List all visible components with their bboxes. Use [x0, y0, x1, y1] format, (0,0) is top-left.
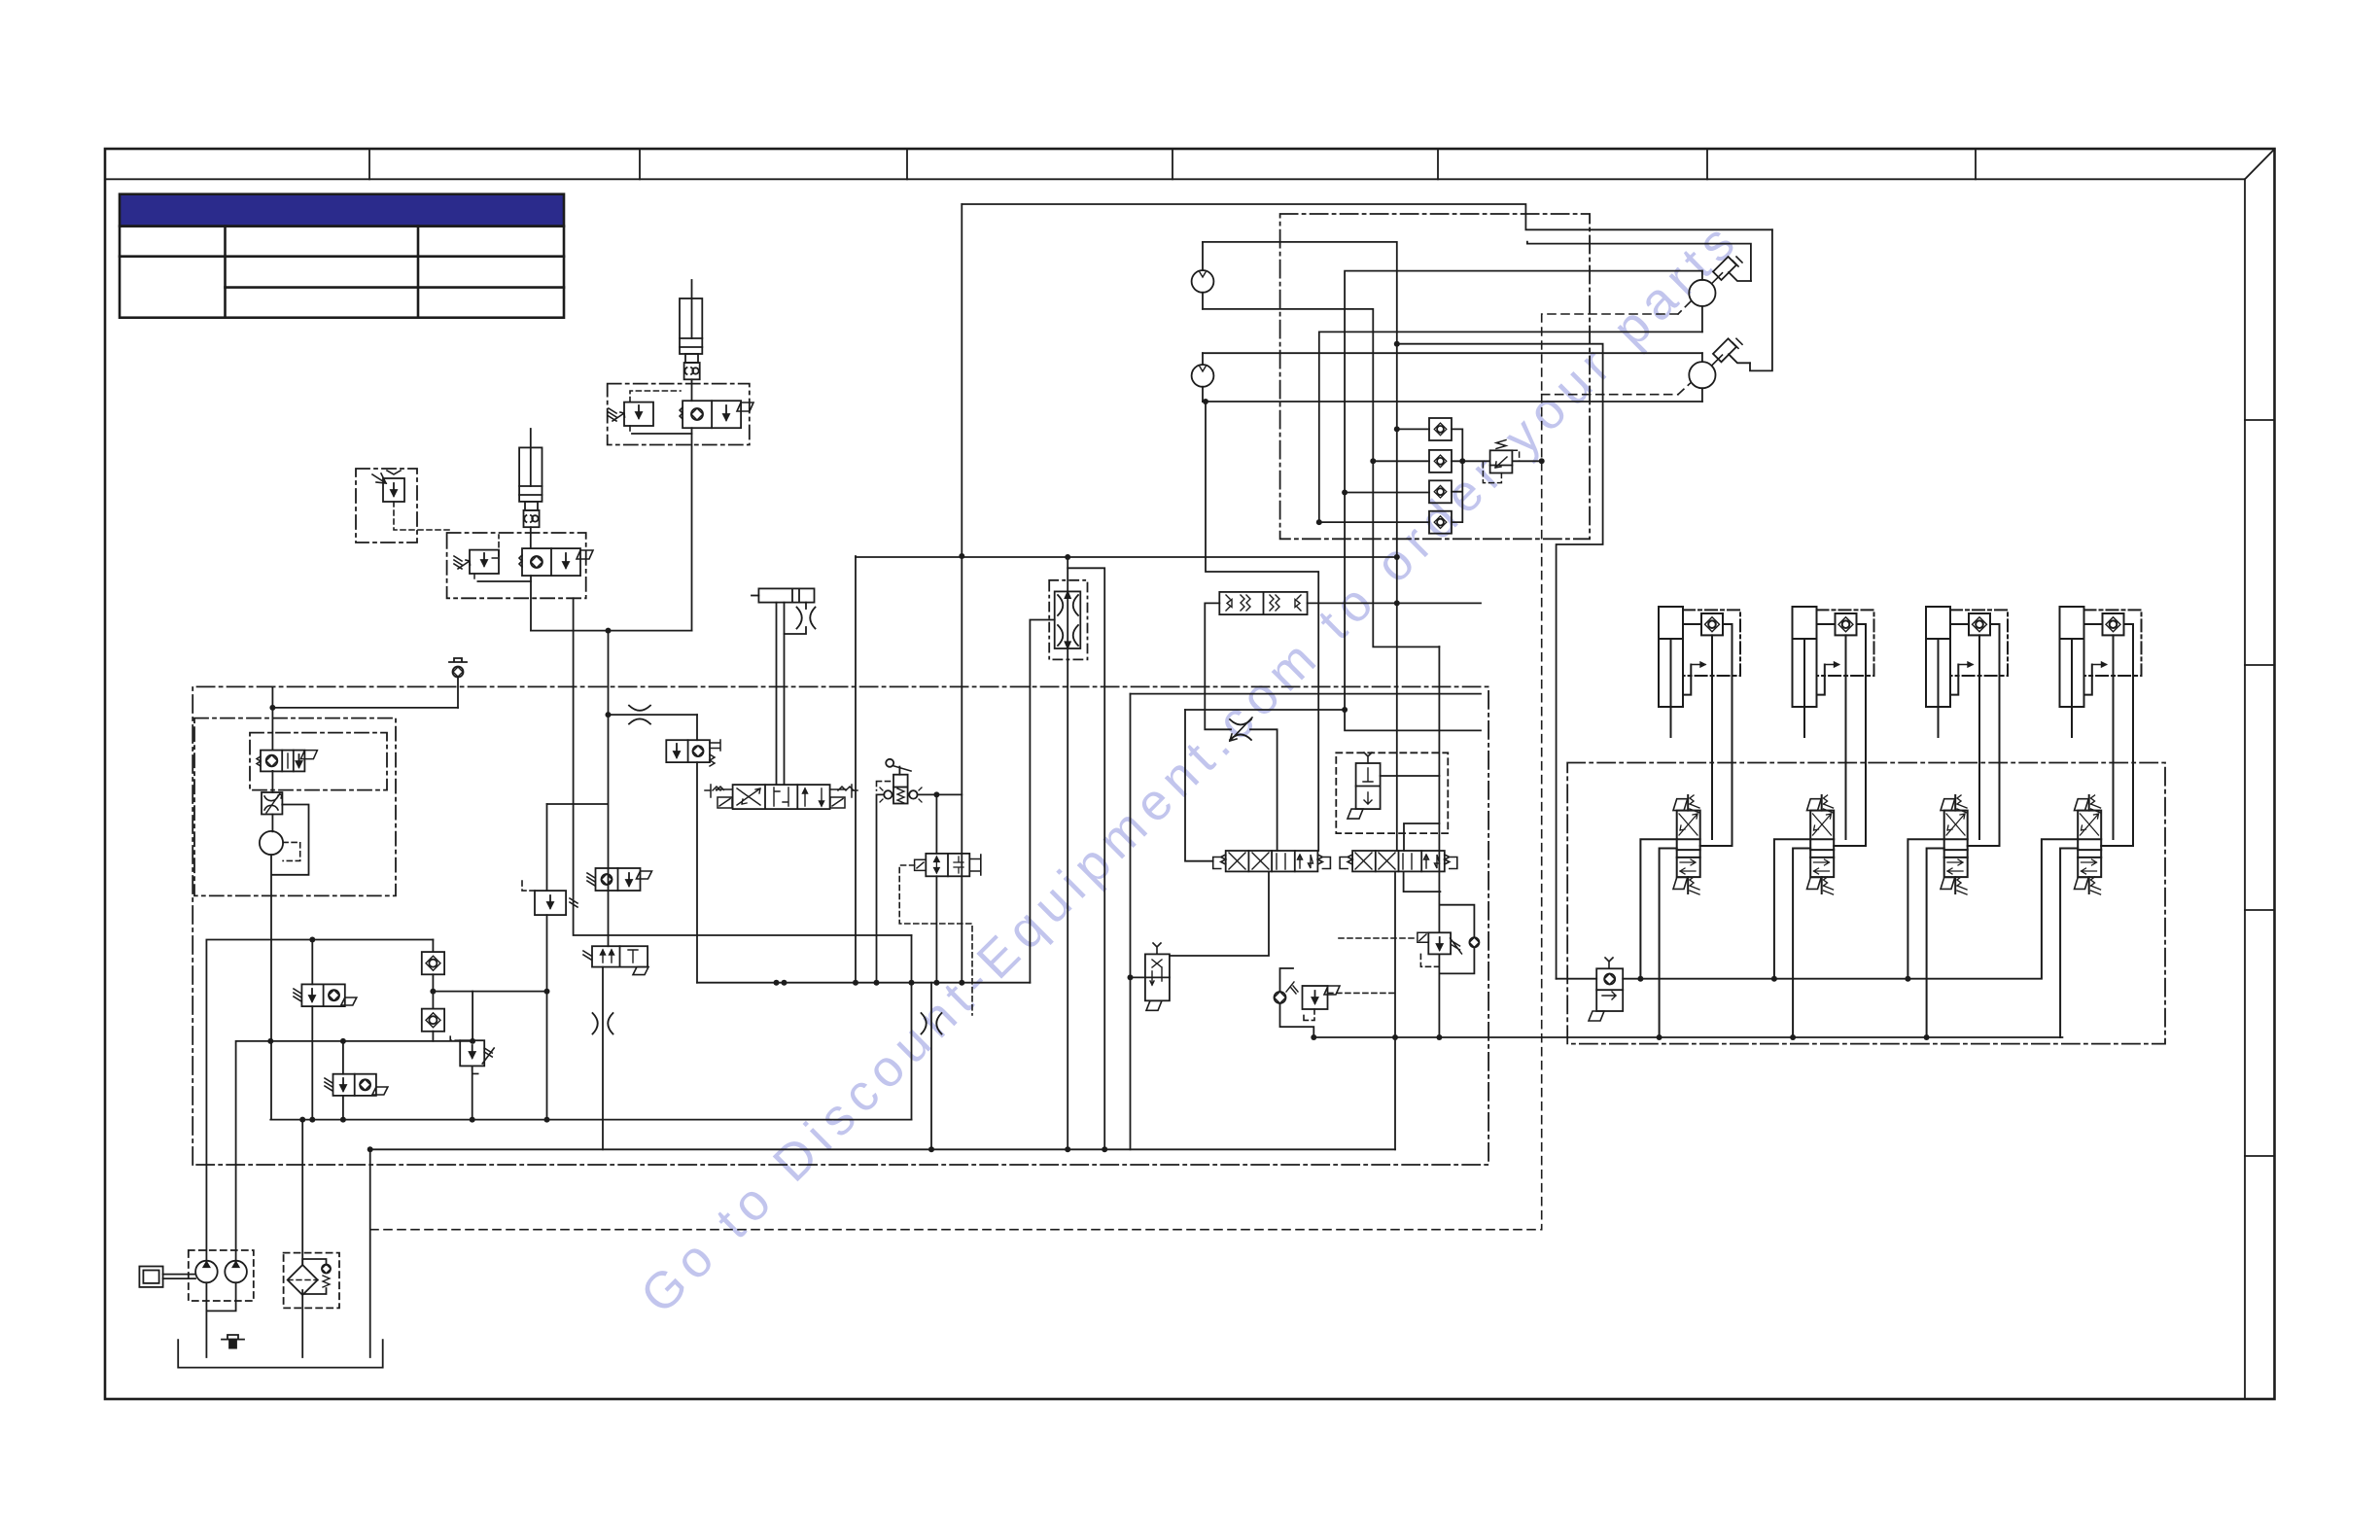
- L2 wires: [342, 1041, 344, 1120]
- lever valve dashed pilot: [877, 782, 892, 790]
- return line E: [370, 1148, 1395, 1150]
- check valve lower left: [422, 1009, 444, 1032]
- wire circle down: [270, 855, 272, 1120]
- pump2 riser: [236, 1041, 473, 1261]
- box B second output down and right to bus: [574, 598, 912, 935]
- wire c1 top to check1: [1203, 242, 1397, 851]
- bleeder drop wire: [457, 678, 459, 708]
- wire motor1 top to check3: [1345, 271, 1702, 731]
- central dash-dot machine box: [192, 686, 1488, 1165]
- flow restrictor dash-dot frame: [1049, 580, 1087, 660]
- cylinder A rod: [691, 280, 693, 338]
- border frame inner top line: [105, 178, 2245, 180]
- feed wire from boundary: [271, 687, 273, 750]
- border frame outer: [105, 149, 2275, 1399]
- solenoid check valve B: [522, 548, 580, 576]
- motor box: [139, 1267, 162, 1287]
- drain dotted drop: [1541, 395, 1543, 1230]
- 4/3 proportional valve P1: [1213, 851, 1331, 871]
- filter dashed box: [284, 1253, 339, 1309]
- valve mid pilot solenoid: [915, 859, 927, 870]
- wire cylinder B to valve: [530, 527, 532, 548]
- cylinder drop wires: [777, 603, 785, 786]
- lever valve wires: [877, 794, 885, 982]
- flow restrictor center line with arrows: [1067, 557, 1068, 1149]
- compensator A: [624, 402, 653, 426]
- valve D output down to bus: [696, 762, 698, 983]
- wire bus drop: [911, 935, 913, 1120]
- relief valve dashed box top-left: [356, 469, 417, 542]
- cylinder B neck block: [525, 502, 538, 510]
- gauge circle: [260, 831, 283, 855]
- cylinder B body: [519, 447, 542, 502]
- 4/3 proportional valve P2: [1340, 851, 1457, 871]
- check2 to relief wire: [1452, 460, 1488, 462]
- orifice right low: [922, 1013, 942, 1034]
- motor outer loop: [1750, 229, 1772, 370]
- compensator mid: [535, 891, 566, 915]
- feed vertical to valves G1 G2: [608, 631, 610, 947]
- check valve 3: [1429, 480, 1452, 503]
- double relief wires: [1205, 603, 1231, 729]
- valve E right cap spring+solenoid: [830, 787, 854, 790]
- title table grid: [120, 227, 564, 318]
- motor inner loop: [1527, 242, 1751, 281]
- check valve 2: [1429, 450, 1452, 472]
- collector horizontal A-B: [531, 630, 692, 632]
- wire cylinder A to valve: [691, 379, 693, 401]
- side rect: [272, 805, 308, 875]
- branch to valve D with orifice: [609, 714, 698, 716]
- compensator B: [470, 550, 499, 574]
- cylinder A check-orifice block: [684, 363, 700, 379]
- wire into valve D: [696, 715, 698, 740]
- motor 1 coupling: [1712, 273, 1723, 284]
- throttle below: [262, 792, 282, 815]
- inner dash-dot sub box: [250, 733, 387, 790]
- solenoid box outlet stubs: [1404, 823, 1439, 851]
- restrictor throttles: [1058, 595, 1078, 615]
- shaft: [163, 1275, 195, 1279]
- filter bypass check: [302, 1259, 326, 1294]
- pump1 riser: [206, 940, 433, 1262]
- pressure relief L: [460, 1040, 484, 1066]
- dash-dot box top right: [1280, 214, 1591, 539]
- check valve 1: [1429, 418, 1452, 440]
- filter diamond: [288, 1265, 318, 1295]
- 4/3 directional valve E: [733, 785, 830, 809]
- air bleeder: [449, 658, 467, 662]
- cylinder B check-orifice block: [524, 510, 540, 527]
- dash-dot box assembly A: [608, 384, 750, 445]
- big box left vertical: [961, 204, 962, 983]
- bottom bus left: [270, 1119, 911, 1121]
- frame tick marks top: [369, 149, 1976, 179]
- outrigger group 3: [1907, 607, 2008, 1037]
- check1 to check2 left stubs: [1373, 429, 1429, 461]
- motor 1: [1689, 280, 1715, 306]
- solenoid valve L1: [301, 984, 344, 1006]
- relief valve pilot dashed: [394, 502, 449, 530]
- branch to valve P1: [1206, 402, 1318, 851]
- horizontal cylinder rod: [752, 595, 758, 597]
- 2-position valve mid: [926, 854, 969, 876]
- outrigger group 4: [2042, 607, 2142, 1037]
- dashed solenoid box: [1336, 752, 1448, 833]
- check mid wire: [433, 991, 546, 993]
- filter down wire: [301, 1295, 303, 1357]
- orifice left low: [593, 1013, 613, 1034]
- gauge circle 2: [1192, 365, 1214, 387]
- pump group dashed box: [189, 1250, 254, 1301]
- motor 2 coupling: [1712, 355, 1723, 366]
- outrigger group 2: [1774, 607, 1874, 1037]
- frame tick marks right: [2245, 420, 2275, 1156]
- title table blue header: [120, 194, 564, 227]
- border frame inner right line: [2244, 179, 2246, 1399]
- flow restrictor inner box: [1055, 591, 1081, 648]
- main solenoid check valve: [261, 751, 304, 772]
- valve G2: [592, 946, 647, 966]
- left mid valve G1: [596, 868, 641, 891]
- svg-text:Go to Discount-Equipment.com t: Go to Discount-Equipment.com to order yo…: [630, 214, 1746, 1324]
- gauge circle 1: [1192, 270, 1214, 293]
- motor drain dotted lines: [1678, 301, 1691, 314]
- outrigger dash-dot box: [1567, 763, 2165, 1044]
- wire valve to throttle: [271, 771, 273, 832]
- left pilot valve: [1145, 954, 1170, 1000]
- wire B valve down to collector: [530, 576, 532, 631]
- wire motor1 bottom to check4: [1319, 332, 1702, 522]
- solenoid valve in box: [1356, 763, 1381, 809]
- filter wire top: [301, 1120, 303, 1265]
- supply line K: [856, 556, 1397, 558]
- compensator B bottom link: [473, 574, 475, 581]
- main drop bus wire: [697, 982, 1030, 984]
- wire c1 bottom to check2: [1203, 309, 1439, 647]
- wire A valve down to collector: [691, 428, 693, 630]
- bus2 outrigger lower bus: [1313, 1036, 2062, 1038]
- bleeder horizontal wire: [272, 707, 458, 709]
- valve mid pilot dashed: [899, 865, 972, 1015]
- valve mid through wire: [935, 876, 937, 982]
- restrictor bypass wire: [1067, 568, 1104, 1149]
- horizontal cylinder body: [758, 588, 814, 602]
- dash-dot box assembly B: [447, 533, 586, 598]
- pump circle 2: [225, 1261, 247, 1283]
- check relief assembly mid: [1275, 992, 1286, 1003]
- outrigger solenoid valve: [1596, 968, 1623, 1011]
- relief out wire: [1512, 460, 1541, 462]
- relief valve: [383, 478, 404, 502]
- orifice below cylinder: [805, 603, 807, 609]
- cylinder A piston: [680, 338, 702, 347]
- wire c2 bottom to motor2: [1203, 401, 1702, 402]
- check column: [432, 940, 434, 1041]
- solenoid valve L2: [333, 1074, 376, 1096]
- motor 2: [1689, 362, 1715, 388]
- outrigger group 1: [1640, 607, 1740, 1037]
- compensator A pilot dashes: [630, 391, 681, 402]
- pump circle 1: [195, 1261, 218, 1283]
- solenoid check valve A: [682, 401, 741, 428]
- cylinder B rod: [530, 429, 532, 486]
- G2 output wire: [602, 967, 604, 1150]
- wire c2 top to motor2: [1203, 352, 1702, 354]
- lever valve: [886, 759, 893, 767]
- relief valve small: [1490, 450, 1513, 472]
- valve E left cap spring+solenoid: [713, 787, 733, 790]
- left pilot valve wires: [1170, 871, 1269, 956]
- L1 wires: [311, 940, 313, 1120]
- breather: [222, 1335, 244, 1340]
- restrictor left wire: [1030, 620, 1054, 983]
- double relief valve: [1219, 592, 1307, 614]
- check valve upper left: [422, 952, 444, 974]
- long mid horizontals: [1131, 693, 1482, 695]
- cylinder A body: [680, 298, 702, 354]
- check valve 4: [1429, 511, 1452, 534]
- adjustable flow control: [1230, 719, 1251, 740]
- check right rail: [1452, 429, 1462, 522]
- pump lower connection: [206, 1282, 235, 1357]
- 2/2 solenoid valve D: [666, 740, 710, 762]
- valve P2 bottom wires: [1394, 871, 1396, 1149]
- outrigger solenoid wires: [1557, 978, 1597, 980]
- big box top: [962, 204, 1772, 229]
- inner dash-dot box: [194, 718, 396, 896]
- compensator B pilot dashes: [492, 535, 499, 558]
- outrigger feed wire: [1397, 344, 1603, 979]
- border frame corner diagonal: [2245, 149, 2275, 179]
- pilot relief right: [1440, 905, 1474, 974]
- tank return riser: [369, 1149, 371, 1357]
- tank: [178, 1340, 383, 1368]
- cylinder A neck block: [685, 354, 698, 363]
- cylinder B piston: [519, 486, 542, 495]
